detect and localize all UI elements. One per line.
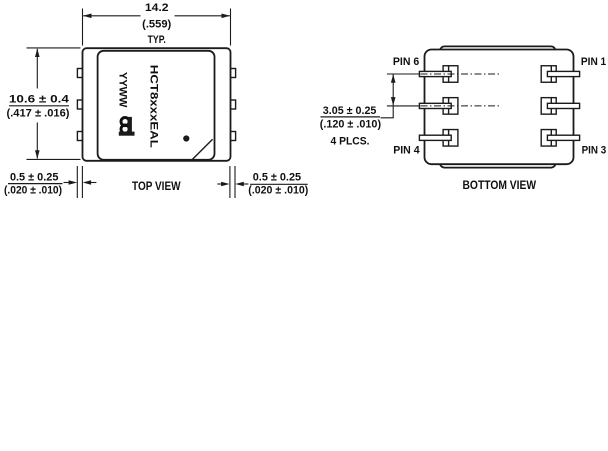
svg-text:(.020 ± .010): (.020 ± .010) bbox=[4, 185, 62, 197]
svg-text:TOP VIEW: TOP VIEW bbox=[132, 179, 181, 193]
pin 6 centerline dash-dot bbox=[421, 73, 500, 75]
top view pin tab left 1 bbox=[77, 69, 82, 78]
dim 14.2 arrowhead left bbox=[83, 14, 92, 19]
dim 14.2 dimension line right segment bbox=[175, 15, 230, 17]
TOP VIEW GROUP bbox=[4, 2, 309, 198]
svg-text:PIN 3: PIN 3 bbox=[582, 145, 607, 157]
pin 1 lead bbox=[547, 71, 579, 76]
top view marking text HCT8xxxEAL rotated bbox=[147, 65, 159, 148]
SIDE VIEW GROUP bbox=[0, 0, 1, 1]
svg-text:0.5 ± 0.25: 0.5 ± 0.25 bbox=[10, 171, 59, 183]
dim 3.05 arrowhead down bbox=[391, 97, 396, 106]
pin 6 lead bbox=[419, 71, 451, 76]
dim 3.05 arrowhead up bbox=[391, 74, 396, 83]
svg-text:PIN 6: PIN 6 bbox=[393, 56, 419, 68]
dim 0.5 left arrowhead out bbox=[83, 180, 92, 185]
dim 0.5 left arrow shaft out bbox=[91, 182, 97, 184]
pin 5 lead bbox=[419, 103, 451, 108]
top view lid corner chamfer line bbox=[192, 139, 212, 159]
pin 4 lead bbox=[419, 135, 451, 140]
pin 3 lead bbox=[547, 135, 579, 140]
top view lid outline bbox=[98, 51, 215, 160]
svg-text:(.559): (.559) bbox=[142, 18, 172, 30]
dim 3.05 fraction bar bbox=[321, 116, 381, 118]
pin 1 pad divider bbox=[550, 66, 552, 83]
dim 0.5 left tick b bbox=[81, 166, 83, 198]
pin 6 pad divider bbox=[448, 66, 450, 83]
dim 10.6 extension line bottom bbox=[27, 158, 81, 160]
svg-text:TYP.: TYP. bbox=[148, 34, 166, 46]
pin 2 lead bbox=[547, 103, 579, 108]
svg-text:HCT8xxxEAL: HCT8xxxEAL bbox=[147, 65, 159, 148]
dim 3.05 extension line row2 bbox=[387, 105, 419, 107]
top view pin tab left 3 bbox=[77, 132, 82, 141]
dim 0.5 right arrow shaft in bbox=[217, 183, 222, 185]
svg-text:PIN 1: PIN 1 bbox=[581, 56, 606, 68]
FRONT VIEW GROUP bbox=[0, 0, 1, 1]
dim 0.5 right tick a bbox=[229, 166, 231, 198]
dim 14.2 arrowhead right bbox=[222, 14, 231, 19]
svg-text:(.417 ± .016): (.417 ± .016) bbox=[7, 108, 70, 120]
dim 10.6 dimension line lower segment bbox=[36, 123, 38, 159]
dim 0.5 left arrowhead in bbox=[69, 180, 78, 185]
svg-text:0.5 ± 0.25: 0.5 ± 0.25 bbox=[253, 172, 301, 184]
dim 10.6 fraction bar bbox=[9, 105, 69, 107]
dim 3.05 extension line row1 bbox=[387, 73, 419, 75]
dim 0.5 right fraction bar bbox=[250, 183, 308, 185]
svg-text:4 PLCS.: 4 PLCS. bbox=[331, 135, 370, 147]
top view manufacturer logo mark bbox=[119, 117, 135, 136]
bottom view package body outline bbox=[425, 50, 574, 165]
dim 10.6 extension line top bbox=[27, 47, 81, 49]
pin 3 pad divider bbox=[550, 130, 552, 147]
svg-text:10.6 ± 0.4: 10.6 ± 0.4 bbox=[9, 93, 70, 105]
svg-text:3.05 ± 0.25: 3.05 ± 0.25 bbox=[323, 105, 377, 117]
top view pin tab right 1 bbox=[230, 69, 235, 78]
dim 0.5 right arrowhead out bbox=[235, 182, 244, 187]
svg-text:YYWW: YYWW bbox=[116, 72, 128, 108]
pin 6 pad bbox=[443, 66, 458, 83]
top view pin tab left 2 bbox=[77, 100, 82, 109]
svg-text:(.020 ± .010): (.020 ± .010) bbox=[248, 185, 308, 197]
svg-text:(.120 ± .010): (.120 ± .010) bbox=[320, 118, 382, 130]
dim 0.5 right tick b bbox=[234, 166, 236, 198]
pin 3 pad bbox=[541, 130, 556, 147]
pin 4 pad divider bbox=[448, 130, 450, 147]
svg-text:BOTTOM VIEW: BOTTOM VIEW bbox=[463, 178, 537, 192]
top view pin tab right 2 bbox=[230, 100, 235, 109]
dim 10.6 arrowhead up bbox=[35, 49, 40, 58]
dim 0.5 right arrowhead in bbox=[221, 182, 230, 187]
pin 5 pad bbox=[443, 98, 458, 115]
pin 1 pad bbox=[541, 66, 556, 83]
top view package body outline bbox=[83, 48, 231, 161]
pin 5 centerline dash-dot bbox=[421, 105, 500, 107]
dim 0.5 left fraction bar bbox=[8, 183, 63, 185]
dim 10.6 dimension line upper segment bbox=[36, 49, 38, 89]
dim 14.2 extension line left bbox=[82, 9, 84, 46]
dim 14.2 dimension line left segment bbox=[83, 15, 140, 17]
dim 14.2 extension line right bbox=[230, 9, 232, 46]
pin 5 pad divider bbox=[448, 98, 450, 115]
top view marking text YYWW rotated bbox=[116, 72, 128, 108]
DIMENSIONS NOTES bbox=[0, 0, 1, 1]
bottom view cover outline behind body bbox=[440, 46, 556, 167]
svg-text:PIN 4: PIN 4 bbox=[393, 145, 420, 157]
dim 0.5 right arrow shaft out bbox=[243, 183, 248, 185]
top view pin 1 index dot bbox=[183, 135, 189, 141]
svg-text:14.2: 14.2 bbox=[145, 2, 169, 14]
dim 3.05 dimension line bbox=[392, 75, 394, 106]
pin 2 pad bbox=[541, 98, 556, 115]
dim 0.5 left tick a bbox=[76, 166, 78, 198]
dim 10.6 arrowhead down bbox=[35, 150, 40, 159]
dim 3.05 leader line bbox=[381, 106, 394, 118]
pin 2 pad divider bbox=[550, 98, 552, 115]
top view pin tab right 3 bbox=[230, 132, 235, 141]
BOTTOM VIEW GROUP bbox=[320, 46, 606, 192]
dim 0.5 left arrow shaft in bbox=[64, 182, 71, 184]
pin 4 pad bbox=[443, 130, 458, 147]
